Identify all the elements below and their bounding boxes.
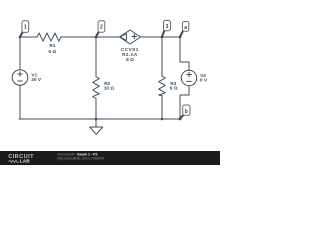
resistor R3 xyxy=(159,76,166,96)
svg-text:b: b xyxy=(185,109,188,115)
label V1 value xyxy=(31,73,42,83)
svg-text:5 Ω: 5 Ω xyxy=(48,49,56,55)
wire R1 to node 2 xyxy=(61,36,96,38)
wire R3 to bottom rail xyxy=(161,96,163,120)
svg-text:20 V: 20 V xyxy=(31,77,42,83)
wire left branch top xyxy=(19,37,21,70)
svg-text:R2.nA: R2.nA xyxy=(122,52,138,58)
junction node 3 xyxy=(161,36,164,39)
junction node top-left xyxy=(19,36,22,39)
footer bar xyxy=(0,151,220,165)
footer url text xyxy=(57,157,104,161)
svg-text:6 Ω: 6 Ω xyxy=(170,86,178,92)
svg-text:0 V: 0 V xyxy=(200,78,208,84)
label V2 value xyxy=(200,73,208,84)
svg-text:3: 3 xyxy=(166,24,169,30)
svg-text:R1: R1 xyxy=(49,43,55,49)
footer logo LAB xyxy=(20,159,30,165)
svg-text:10 Ω: 10 Ω xyxy=(104,86,115,92)
label R2 value xyxy=(104,81,115,92)
wire node a down to V2 top xyxy=(180,37,189,70)
svg-text:a: a xyxy=(184,25,187,31)
node 3 flag xyxy=(162,20,171,36)
node b flag xyxy=(180,105,190,119)
node a flag xyxy=(180,22,189,37)
wire V2 bottom to node b xyxy=(180,86,189,119)
ground xyxy=(90,119,103,134)
svg-text:8 Ω: 8 Ω xyxy=(126,57,134,63)
controlled source CCVS1 diamond body xyxy=(120,30,141,44)
wire CCVS1 to node 3 xyxy=(141,36,163,38)
label R1 value xyxy=(48,43,56,55)
node 2 flag xyxy=(96,21,105,37)
junction node a xyxy=(179,36,182,39)
voltage source V1 xyxy=(12,70,28,86)
label CCVS1 value xyxy=(121,47,139,63)
junction R2 bottom xyxy=(95,118,98,121)
resistor R2 xyxy=(93,77,100,99)
wire bottom rail xyxy=(19,118,180,120)
footer logo zigzag xyxy=(9,160,19,162)
svg-text:1: 1 xyxy=(24,25,27,31)
wire node 3 down to R3 xyxy=(161,37,163,76)
wire node 2 to CCVS1 xyxy=(96,36,120,38)
junction node b xyxy=(179,118,182,121)
junction R3 bottom xyxy=(161,118,164,121)
label R3 value xyxy=(170,81,178,92)
resistor R1 xyxy=(37,33,61,41)
svg-text:http://circuitlab.com/c7b68h9t: http://circuitlab.com/c7b68h9t xyxy=(57,157,104,161)
footer logo CIRCUIT xyxy=(8,154,34,160)
svg-text:2: 2 xyxy=(100,25,103,31)
wire R2 to bottom rail xyxy=(95,99,97,120)
wire node 2 down to R2 xyxy=(95,37,97,77)
voltage source V2 xyxy=(181,70,196,85)
wire top-left horizontal to R1 xyxy=(20,36,37,38)
wire node 3 to node a corner xyxy=(162,36,180,38)
wire left branch bottom xyxy=(19,85,21,119)
junction node 2 xyxy=(95,36,98,39)
footer title text xyxy=(57,153,98,157)
svg-text:LAB: LAB xyxy=(20,159,30,165)
svg-text:CCVS1: CCVS1 xyxy=(121,47,139,53)
node 1 flag xyxy=(20,21,29,37)
